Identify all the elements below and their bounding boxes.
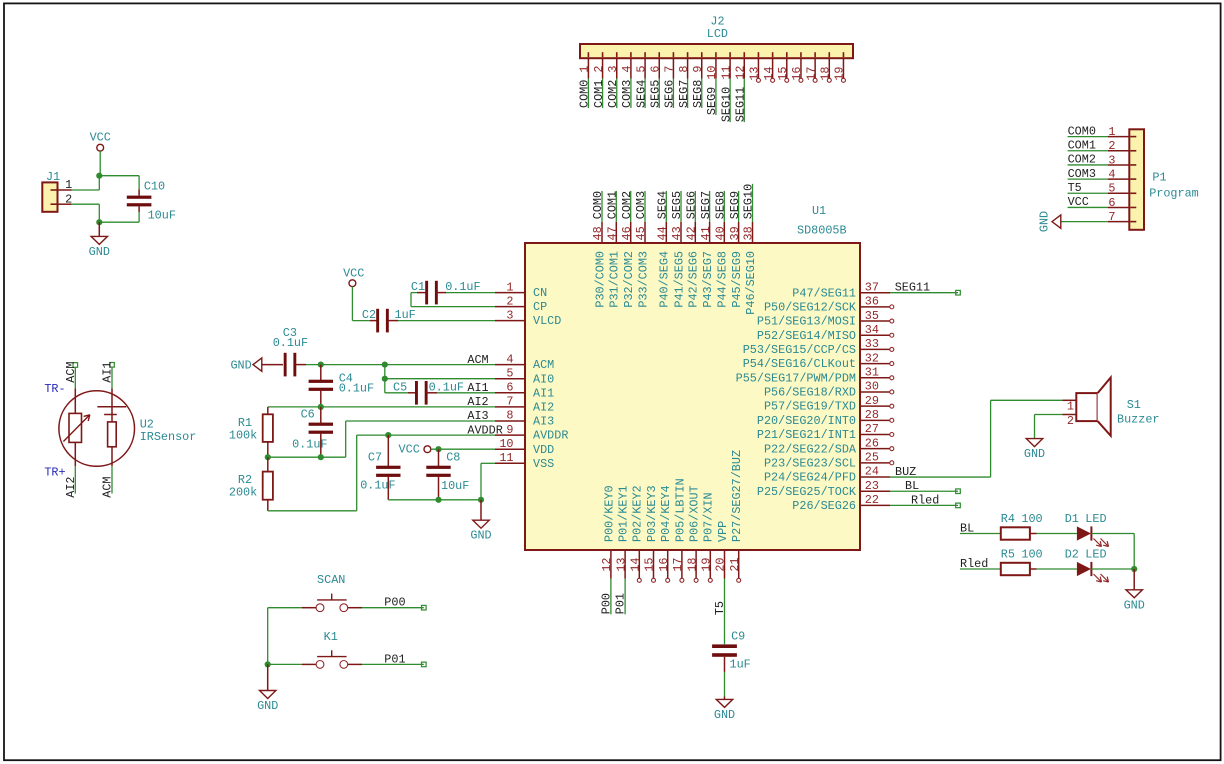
svg-text:COM3 4: COM3 4 [620, 66, 634, 109]
svg-text:6: 6 [506, 381, 513, 395]
svg-text:P24/SEG24/PFD: P24/SEG24/PFD [764, 471, 856, 485]
svg-text:16: 16 [657, 558, 671, 572]
svg-text:7: 7 [506, 395, 513, 409]
svg-text:GND: GND [1038, 211, 1052, 232]
svg-text:0.1uF: 0.1uF [273, 336, 308, 350]
svg-text:P30/COM0: P30/COM0 [593, 251, 607, 308]
svg-text:4: 4 [1108, 168, 1115, 182]
svg-text:C6: C6 [301, 408, 315, 422]
svg-text:GND: GND [714, 708, 735, 722]
svg-text:AI1: AI1 [533, 386, 554, 400]
svg-text:P04/KEY4: P04/KEY4 [659, 485, 673, 542]
svg-text:P1: P1 [1152, 171, 1166, 185]
svg-text:VLCD: VLCD [533, 314, 561, 328]
svg-text:19: 19 [700, 558, 714, 572]
svg-text:3: 3 [506, 308, 513, 322]
svg-text:0.1uF: 0.1uF [360, 478, 395, 492]
svg-text:R5: R5 [1001, 548, 1015, 562]
svg-text:C10: C10 [144, 180, 165, 194]
svg-text:COM2: COM2 [1068, 153, 1096, 167]
svg-text:GND: GND [230, 359, 251, 373]
svg-text:P01/KEY1: P01/KEY1 [617, 485, 631, 542]
svg-text:13: 13 [614, 558, 628, 572]
svg-text:P27/SEG27/BUZ: P27/SEG27/BUZ [730, 450, 744, 542]
svg-text:P02/KEY2: P02/KEY2 [631, 485, 645, 542]
svg-text:U1: U1 [812, 204, 826, 218]
svg-text:P45/SEG9: P45/SEG9 [730, 251, 744, 308]
svg-text:P07/XIN: P07/XIN [702, 492, 716, 542]
svg-text:P46/SEG10: P46/SEG10 [744, 251, 758, 315]
svg-text:30: 30 [865, 380, 879, 394]
svg-text:32: 32 [865, 351, 879, 365]
svg-text:CN: CN [533, 286, 547, 300]
svg-text:LED: LED [1085, 548, 1106, 562]
svg-text:SEG7 8: SEG7 8 [677, 66, 691, 109]
svg-text:ACM: ACM [467, 353, 488, 367]
svg-text:AVDDR: AVDDR [467, 423, 502, 437]
svg-text:P23/SEG23/SCL: P23/SEG23/SCL [764, 456, 856, 470]
svg-text:SEG8 9: SEG8 9 [691, 66, 705, 109]
svg-text:12: 12 [600, 558, 614, 572]
svg-text:Buzzer: Buzzer [1117, 413, 1159, 427]
svg-text:BUZ: BUZ [895, 465, 916, 479]
svg-text:SCAN: SCAN [317, 573, 345, 587]
svg-text:8: 8 [506, 409, 513, 423]
svg-text:P43/SEG7: P43/SEG7 [701, 251, 715, 308]
svg-text:31: 31 [865, 365, 879, 379]
svg-text:COM1 2: COM1 2 [592, 66, 606, 109]
svg-text:AI0: AI0 [533, 372, 554, 386]
svg-text:SEG5 6: SEG5 6 [648, 66, 662, 109]
svg-text:COM0 1: COM0 1 [578, 66, 592, 109]
svg-text:S1: S1 [1127, 398, 1141, 412]
svg-text:10: 10 [499, 437, 513, 451]
svg-text:D2: D2 [1065, 548, 1079, 562]
svg-text:COM2 3: COM2 3 [606, 66, 620, 109]
svg-text:AI3: AI3 [533, 415, 554, 429]
svg-text:36: 36 [865, 295, 879, 309]
svg-text:47 COM1: 47 COM1 [606, 191, 620, 241]
svg-text:P32/COM2: P32/COM2 [622, 251, 636, 308]
svg-text:P44/SEG8: P44/SEG8 [716, 251, 730, 308]
svg-text:J1: J1 [46, 170, 60, 184]
svg-text:1: 1 [65, 178, 72, 192]
svg-text:27: 27 [865, 422, 879, 436]
svg-text:VCC: VCC [1068, 195, 1089, 209]
svg-text:P56/SEG18/RXD: P56/SEG18/RXD [764, 386, 856, 400]
svg-text:P51/SEG13/MOSI: P51/SEG13/MOSI [757, 315, 856, 329]
svg-text:23: 23 [865, 479, 879, 493]
svg-text:ACM: ACM [101, 477, 115, 498]
svg-text:COM0: COM0 [1068, 124, 1096, 138]
svg-text:35: 35 [865, 309, 879, 323]
svg-text:TR-: TR- [44, 382, 65, 396]
svg-text:9: 9 [506, 423, 513, 437]
svg-text:P03/KEY3: P03/KEY3 [645, 485, 659, 542]
svg-text:P31/COM1: P31/COM1 [608, 251, 622, 308]
svg-text:P00: P00 [384, 596, 405, 610]
svg-text:26: 26 [865, 436, 879, 450]
svg-text:VPP: VPP [716, 521, 730, 542]
svg-text:ACM: ACM [533, 358, 554, 372]
svg-text:AI2: AI2 [64, 477, 78, 498]
svg-text:0.1uF: 0.1uF [339, 381, 374, 395]
svg-text:GND: GND [470, 529, 491, 543]
svg-text:1uF: 1uF [730, 658, 751, 672]
svg-text:21: 21 [728, 558, 742, 572]
svg-text:AI2: AI2 [533, 401, 554, 415]
svg-text:P41/SEG5: P41/SEG5 [672, 251, 686, 308]
svg-text:39 SEG9: 39 SEG9 [728, 191, 742, 241]
svg-text:R4: R4 [1001, 512, 1015, 526]
svg-text:VDD: VDD [533, 443, 554, 457]
svg-text:3: 3 [1108, 153, 1115, 167]
svg-text:P50/SEG12/SCK: P50/SEG12/SCK [764, 300, 857, 314]
svg-text:1: 1 [506, 280, 513, 294]
svg-text:100k: 100k [229, 428, 257, 442]
svg-text:P33/COM3: P33/COM3 [636, 251, 650, 308]
svg-text:VCC: VCC [343, 267, 364, 281]
svg-text:41 SEG7: 41 SEG7 [699, 191, 713, 241]
svg-text:P25/SEG25/TOCK: P25/SEG25/TOCK [757, 485, 857, 499]
svg-text:C2: C2 [362, 308, 376, 322]
svg-text:J2: J2 [710, 14, 724, 28]
svg-text:AI2: AI2 [467, 395, 488, 409]
svg-text:TR+: TR+ [44, 465, 65, 479]
svg-text:P00: P00 [599, 593, 613, 614]
svg-text:42 SEG6: 42 SEG6 [685, 191, 699, 241]
svg-text:LED: LED [1085, 512, 1106, 526]
svg-text:P52/SEG14/MISO: P52/SEG14/MISO [757, 329, 856, 343]
svg-text:SEG9 10: SEG9 10 [705, 66, 719, 116]
svg-text:5: 5 [506, 366, 513, 380]
svg-text:33: 33 [865, 337, 879, 351]
svg-text:IRSensor: IRSensor [140, 430, 197, 444]
svg-text:T5: T5 [1068, 181, 1082, 195]
svg-text:45 COM3: 45 COM3 [634, 191, 648, 241]
svg-text:Program: Program [1149, 186, 1199, 200]
svg-text:P05/LBTIN: P05/LBTIN [673, 478, 687, 542]
svg-text:15: 15 [643, 558, 657, 572]
svg-text:24: 24 [865, 465, 879, 479]
svg-text:P57/SEG19/TXD: P57/SEG19/TXD [764, 400, 856, 414]
svg-text:17: 17 [671, 558, 685, 572]
svg-text:LCD: LCD [707, 27, 728, 41]
svg-text:P53/SEG15/CCP/CS: P53/SEG15/CCP/CS [743, 343, 856, 357]
svg-text:P20/SEG20/INT0: P20/SEG20/INT0 [757, 414, 856, 428]
svg-text:34: 34 [865, 323, 879, 337]
svg-text:VSS: VSS [533, 457, 554, 471]
svg-text:18: 18 [685, 558, 699, 572]
svg-text:P26/SEG26: P26/SEG26 [792, 499, 856, 513]
svg-text:AI3: AI3 [467, 409, 488, 423]
svg-text:20: 20 [714, 558, 728, 572]
svg-text:2: 2 [506, 294, 513, 308]
svg-text:48 COM0: 48 COM0 [591, 191, 605, 241]
svg-text:AI1: AI1 [467, 381, 488, 395]
svg-text:Rled: Rled [911, 493, 939, 507]
svg-text:SEG11: SEG11 [895, 281, 930, 295]
svg-text:37: 37 [865, 280, 879, 294]
svg-text:AI1: AI1 [101, 362, 115, 383]
svg-text:P22/SEG22/SDA: P22/SEG22/SDA [764, 442, 857, 456]
svg-text:GND: GND [1024, 447, 1045, 461]
svg-text:2: 2 [65, 192, 72, 206]
svg-text:P54/SEG16/CLKout: P54/SEG16/CLKout [743, 357, 856, 371]
svg-text:10uF: 10uF [148, 209, 176, 223]
svg-text:29: 29 [865, 394, 879, 408]
svg-text:P00/KEY0: P00/KEY0 [602, 485, 616, 542]
svg-text:C5: C5 [393, 381, 407, 395]
svg-text:CP: CP [533, 300, 547, 314]
svg-text:C8: C8 [446, 451, 460, 465]
svg-text:4: 4 [506, 352, 513, 366]
svg-text:100: 100 [1021, 512, 1042, 526]
svg-text:11: 11 [499, 451, 513, 465]
svg-text:COM3: COM3 [1068, 167, 1096, 181]
svg-text:6: 6 [1108, 196, 1115, 210]
svg-text:T5: T5 [713, 601, 727, 615]
svg-text:5: 5 [1108, 182, 1115, 196]
svg-text:P40/SEG4: P40/SEG4 [658, 251, 672, 308]
svg-text:46 COM2: 46 COM2 [620, 191, 634, 241]
svg-text:D1: D1 [1065, 512, 1079, 526]
svg-text:SEG4 5: SEG4 5 [634, 66, 648, 109]
svg-text:AVDDR: AVDDR [533, 429, 568, 443]
svg-text:P47/SEG11: P47/SEG11 [792, 286, 856, 300]
svg-text:P01: P01 [614, 593, 628, 614]
svg-text:GND: GND [257, 699, 278, 713]
svg-text:C9: C9 [731, 630, 745, 644]
svg-text:SEG10 11: SEG10 11 [719, 66, 733, 123]
svg-text:43 SEG5: 43 SEG5 [670, 191, 684, 241]
svg-text:10uF: 10uF [441, 479, 469, 493]
svg-text:GND: GND [89, 245, 110, 259]
svg-text:BL: BL [905, 479, 919, 493]
svg-text:K1: K1 [324, 630, 338, 644]
svg-text:7: 7 [1108, 210, 1115, 224]
svg-text:14: 14 [629, 558, 643, 572]
svg-text:P01: P01 [384, 652, 405, 666]
svg-text:0.1uF: 0.1uF [292, 438, 327, 452]
svg-text:200k: 200k [229, 485, 257, 499]
svg-text:22: 22 [865, 493, 879, 507]
svg-text:SD8005B: SD8005B [797, 224, 847, 238]
svg-text:25: 25 [865, 451, 879, 465]
svg-text:40 SEG8: 40 SEG8 [714, 191, 728, 241]
svg-text:1: 1 [1108, 125, 1115, 139]
svg-text:ACM: ACM [64, 362, 78, 383]
svg-text:GND: GND [1124, 598, 1145, 612]
svg-text:38 SEG10: 38 SEG10 [742, 184, 756, 241]
svg-text:P55/SEG17/PWM/PDM: P55/SEG17/PWM/PDM [736, 371, 856, 385]
svg-text:44 SEG4: 44 SEG4 [656, 191, 670, 241]
svg-text:P06/XOUT: P06/XOUT [688, 485, 702, 542]
svg-text:P21/SEG21/INT1: P21/SEG21/INT1 [757, 428, 856, 442]
svg-text:P42/SEG6: P42/SEG6 [687, 251, 701, 308]
svg-text:SEG11 12: SEG11 12 [733, 66, 747, 123]
svg-text:C7: C7 [368, 451, 382, 465]
svg-text:SEG6 7: SEG6 7 [663, 66, 677, 109]
svg-text:28: 28 [865, 408, 879, 422]
svg-text:2: 2 [1108, 139, 1115, 153]
svg-text:1: 1 [1067, 400, 1074, 414]
svg-text:COM1: COM1 [1068, 138, 1096, 152]
svg-text:0.1uF: 0.1uF [445, 280, 480, 294]
svg-text:VCC: VCC [399, 443, 420, 457]
svg-text:VCC: VCC [90, 131, 111, 145]
svg-text:100: 100 [1021, 548, 1042, 562]
svg-text:2: 2 [1067, 414, 1074, 428]
